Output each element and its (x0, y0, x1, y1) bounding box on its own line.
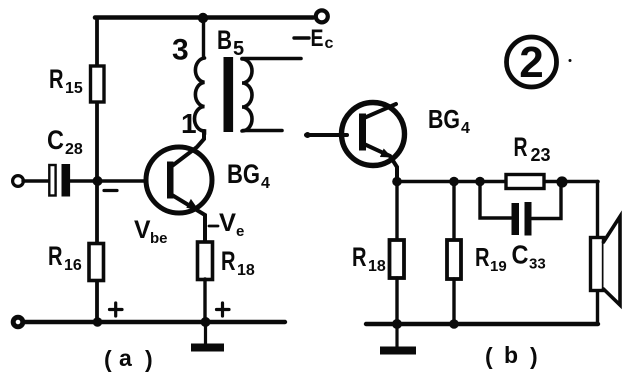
transistor U2 base bar (359, 114, 366, 151)
svg-text:R: R (221, 246, 236, 276)
wire base (b) (306, 133, 347, 137)
label R16 (48, 241, 82, 274)
transistor U2 BG4 circle (342, 103, 405, 166)
transistor U1 base bar (167, 162, 174, 199)
wire C33 right branch (532, 182, 561, 219)
svg-text:(: ( (104, 346, 112, 372)
wire input to C28 (23, 179, 49, 182)
svg-text:18: 18 (368, 258, 386, 275)
svg-text:3: 3 (172, 34, 189, 67)
label plus right (217, 303, 230, 316)
terminal -Ec top right (316, 10, 328, 22)
svg-text:C: C (512, 240, 529, 270)
svg-text:c: c (325, 35, 334, 52)
junction node primary top (198, 13, 208, 23)
wire R18b bottom (395, 278, 398, 324)
svg-text:2: 2 (519, 38, 543, 87)
wire R19 branch (452, 182, 455, 241)
svg-text:b: b (504, 342, 518, 368)
svg-text:23: 23 (531, 145, 551, 165)
label C33 (512, 240, 546, 273)
label R23 (514, 132, 551, 165)
junction C33 left top (475, 177, 485, 187)
terminal bottom left (13, 317, 23, 327)
svg-text:C: C (47, 125, 64, 155)
transistor U1 BG4 circle (146, 147, 212, 213)
transistor U1 collector line (172, 131, 204, 166)
wire R19 bottom (452, 279, 455, 324)
junction R19 top (449, 177, 459, 187)
wire top rail (95, 15, 313, 20)
label (a) (104, 345, 153, 372)
svg-text:16: 16 (64, 257, 82, 274)
wire emitter to bottom rail (203, 279, 206, 322)
svg-text:4: 4 (461, 120, 470, 137)
junction ground node (392, 319, 402, 329)
label Ve (209, 209, 244, 240)
svg-text:be: be (150, 230, 168, 247)
svg-text:V: V (134, 216, 151, 244)
label B5 transformer (217, 25, 244, 60)
label minus (104, 189, 117, 192)
label BG4 left (227, 159, 270, 192)
svg-text:1: 1 (181, 108, 197, 139)
wire left rail (95, 18, 99, 323)
resistor R18 (a) (198, 242, 213, 280)
inductor secondary B5 (242, 59, 252, 131)
svg-text:BG: BG (428, 104, 460, 134)
svg-text:B: B (217, 25, 232, 55)
svg-text:): ) (530, 343, 538, 369)
junction node R18 bottom (201, 317, 211, 327)
resistor R15 (91, 66, 105, 102)
svg-text:e: e (236, 223, 244, 240)
capacitor C28 (49, 165, 55, 196)
label Vbe (134, 216, 168, 247)
wire bottom rail (b) (366, 322, 598, 326)
label BG4 right (428, 104, 470, 137)
transformer core (224, 57, 234, 132)
terminal input (13, 176, 24, 187)
wire R18b branch (395, 182, 398, 241)
label (b) (485, 342, 538, 369)
resistor R18 (b) (390, 240, 405, 278)
label -Ec (294, 25, 334, 52)
wire to speaker top (596, 182, 599, 239)
svg-text:R: R (352, 242, 367, 272)
junction base node (93, 176, 103, 186)
junction R19 bottom (449, 319, 459, 329)
wire secondary top lead (242, 57, 301, 61)
wire secondary bottom lead (243, 129, 282, 133)
junction R23 right (556, 176, 567, 187)
capacitor C33 (512, 203, 520, 235)
svg-text:R: R (514, 132, 528, 162)
svg-text:28: 28 (65, 141, 83, 158)
inductor primary B5 (195, 58, 205, 134)
wire C33 left branch (480, 182, 511, 219)
speck (569, 59, 572, 62)
svg-text:BG: BG (227, 159, 260, 189)
svg-text:5: 5 (233, 38, 244, 60)
label R19 (475, 242, 507, 275)
transistor U1 emitter arrow (186, 199, 199, 211)
resistor R19 (447, 240, 461, 279)
junction emitter node (392, 177, 402, 187)
svg-text:4: 4 (261, 175, 270, 192)
svg-text:E: E (311, 25, 324, 52)
svg-text:V: V (219, 209, 236, 237)
wire speaker bottom (596, 291, 599, 324)
wire primary top lead (202, 18, 205, 58)
transistor U1 emitter line (172, 195, 205, 243)
resistor R16 (89, 244, 104, 281)
transistor U2 emitter line (364, 144, 397, 181)
speaker LS driver (591, 238, 604, 291)
transistor U2 collector line (364, 104, 396, 118)
wire bottom rail (a) (20, 320, 285, 324)
ground (b) (395, 324, 398, 347)
svg-text:18: 18 (237, 262, 255, 279)
wire main rail (b) (397, 180, 598, 184)
svg-text:15: 15 (65, 80, 83, 97)
label C28 (47, 125, 83, 158)
ground (a) (204, 322, 207, 344)
badge circled 2 (507, 37, 557, 87)
svg-text:(: ( (485, 343, 493, 369)
svg-text:R: R (48, 241, 63, 271)
svg-text:19: 19 (490, 258, 507, 275)
svg-text:): ) (145, 346, 153, 372)
label R18 (a) (221, 246, 255, 279)
speaker LS cone (604, 217, 621, 306)
svg-text:R: R (49, 64, 64, 94)
label R15 (49, 64, 83, 97)
label R18 (b) (352, 242, 386, 275)
junction node R16 bottom (93, 317, 103, 327)
transistor U2 emitter arrow (380, 149, 392, 158)
svg-text:33: 33 (529, 256, 546, 273)
label plus left (110, 303, 123, 316)
wire C28 to base (69, 179, 146, 182)
svg-text:R: R (475, 242, 490, 272)
resistor R23 (506, 175, 544, 189)
svg-text:a: a (119, 345, 132, 371)
